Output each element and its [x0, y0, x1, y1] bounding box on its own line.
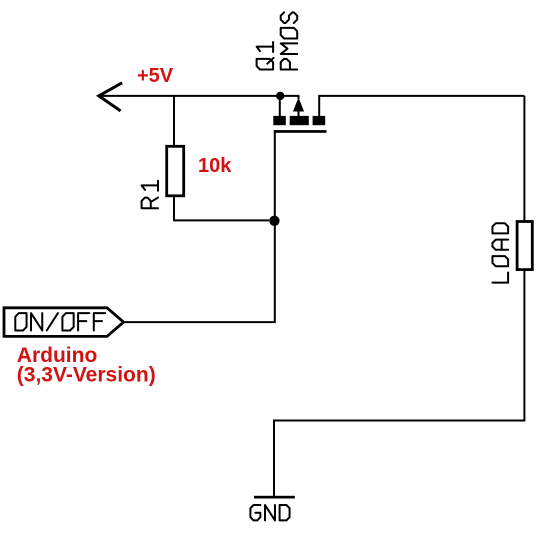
- svg-text:(3,3V-Version): (3,3V-Version): [17, 364, 156, 387]
- svg-text:+5V: +5V: [137, 65, 174, 87]
- svg-text:10k: 10k: [198, 155, 232, 177]
